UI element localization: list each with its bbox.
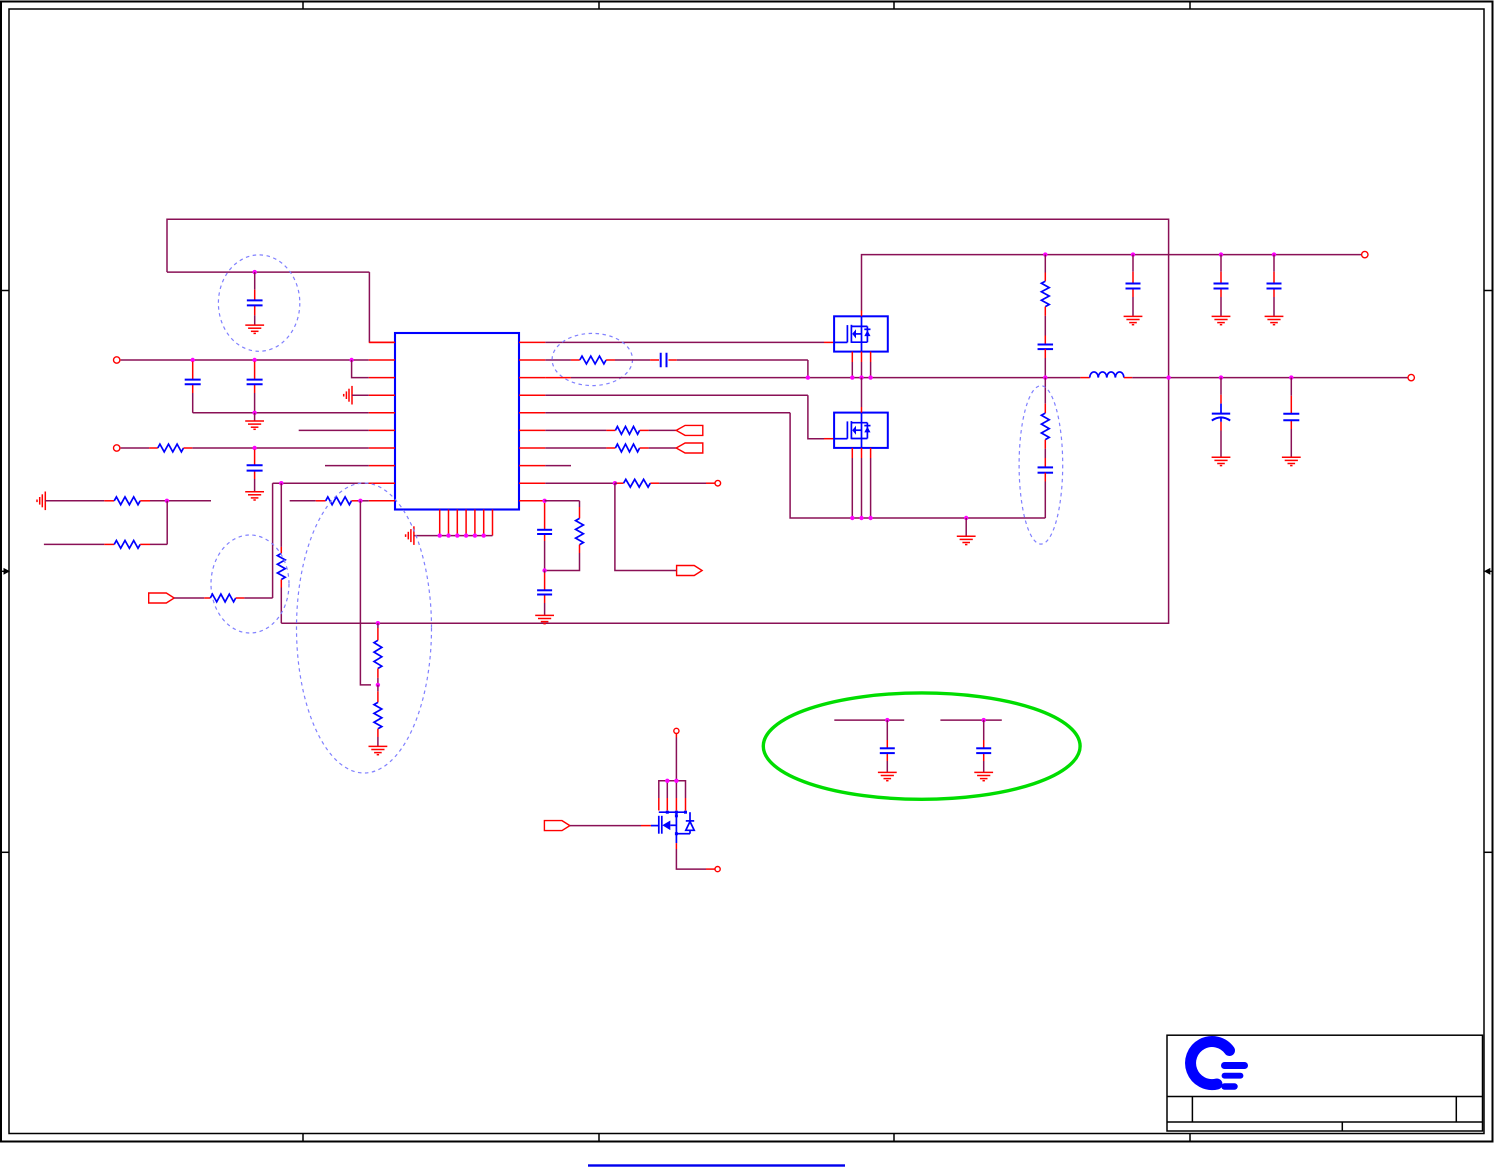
wire C4 to SW rail drop <box>668 360 808 378</box>
capacitor C8 <box>1214 284 1229 289</box>
junction SW rail at snubber <box>1043 375 1047 379</box>
wire ground bus under U1 bottom pins <box>414 535 493 537</box>
terminal circle above Q3 <box>674 728 679 733</box>
capacitor C2 leads <box>192 362 194 413</box>
wire row 4 to Q2 gate <box>545 395 834 439</box>
chassis ground at U1 bottom pin bus <box>406 526 414 545</box>
capacitor C16 leads <box>254 450 256 492</box>
junction row 9 <box>613 481 617 485</box>
capacitor C7 <box>1126 284 1141 289</box>
flag connector comp row <box>677 566 703 576</box>
capacitor C9 leads <box>1273 255 1275 317</box>
wire Q3 gate <box>570 825 659 827</box>
flag connector at Q3 gate <box>544 821 570 831</box>
junction AGND row at C3 bottom <box>252 411 256 415</box>
title block frame <box>1167 1035 1483 1131</box>
resistor R14 vertical <box>1041 281 1049 306</box>
resistor R9 <box>580 356 606 364</box>
junction VOUT rail at C12 <box>1219 375 1223 379</box>
wire R6 to corner up <box>236 597 273 599</box>
border zone tick marks top and bottom <box>303 2 1190 1143</box>
U1 bottom pins 21-27 <box>440 510 493 536</box>
junction VIN rail at R14 <box>1043 252 1047 256</box>
ground stub below AGND junction <box>254 413 256 421</box>
wire stub into U1 pin 8 <box>325 465 369 467</box>
capacitor C5 leads <box>544 503 546 571</box>
ground PGND below Q2 rail <box>957 536 976 544</box>
wire SW rail from U1 pin row 3 to inductor <box>545 377 1080 379</box>
wire VOUT loop left drop to U1 pin 1 <box>167 272 395 342</box>
highlight ellipse around R15 C11 snubber <box>1019 386 1063 544</box>
wire vertical joining R2 and R3 rows <box>166 501 168 545</box>
wire R4 to U1 pin 10 <box>352 500 369 502</box>
capacitor C10 <box>1038 345 1054 350</box>
junction divider mid node <box>376 683 380 687</box>
wire row 7 from terminal to R1 <box>121 447 158 449</box>
capacitor C7 leads <box>1132 255 1134 317</box>
wire L1 to VOUT rail <box>1124 377 1408 379</box>
capacitor C5 <box>537 530 552 534</box>
wire VIN top rail <box>862 255 1362 311</box>
resistor R13 vertical <box>576 518 584 544</box>
ground below C16 <box>245 492 264 500</box>
ground below R8 <box>369 746 388 754</box>
junctions on Q3 drain bracket <box>665 779 679 783</box>
wire vertical from pin 9 row down to FB flag row <box>272 483 274 598</box>
flag connector row 6 <box>676 425 703 435</box>
capacitor C15 leads <box>983 720 985 772</box>
capacitor C8 leads <box>1220 255 1222 317</box>
junction VIN rail at C2 <box>191 358 195 362</box>
wire Q1 drain pin <box>861 311 863 317</box>
capacitor C6 leads <box>544 571 546 616</box>
junctions SW rail at Q1 pins <box>850 375 873 379</box>
wire PGND stub <box>965 518 967 536</box>
resistor R10 <box>615 427 639 435</box>
wire VOUT sense loop (top horizontal, right vertical, bottom bus) <box>167 219 1169 623</box>
capacitor C9 <box>1267 284 1282 289</box>
wire stub into U1 pin 6 <box>299 429 369 431</box>
wire row 7 from R1 to U1 pin 7 <box>184 447 369 449</box>
ground below C14 <box>878 772 897 780</box>
resistor R8 upper lead <box>377 685 379 703</box>
wire SW rail to L1 <box>1080 377 1089 379</box>
wire R14 to C10 <box>1044 307 1046 345</box>
wire Q3 drain bracket <box>659 781 686 811</box>
junction at R2 right <box>165 499 169 503</box>
chassis ground left of R2 <box>37 492 45 511</box>
terminal VIN input circle <box>114 357 120 363</box>
capacitor C14 leads <box>886 720 888 772</box>
wire R5 lower lead to VOUT bus corner <box>280 580 282 624</box>
capacitor C4 series <box>661 353 667 368</box>
wire FB flag to R6 <box>174 597 210 599</box>
resistor R15 upper lead <box>1044 378 1046 414</box>
junctions on U1 bottom pin bus <box>438 533 486 537</box>
junction at R4 right / divider column <box>358 499 362 503</box>
resistor R13 lower lead <box>545 545 580 571</box>
resistor R7 lower lead <box>377 669 379 685</box>
capacitor C10 lower lead <box>1044 349 1046 378</box>
resistor R6 <box>210 594 235 602</box>
junction ground rail at PGND <box>964 516 968 520</box>
hyperlink underline at bottom <box>588 1164 845 1166</box>
transistor Q2 low-side MOSFET <box>834 413 888 448</box>
junction at C15 <box>982 718 986 722</box>
chassis ground at U1 pin 4 row <box>344 386 352 405</box>
wire U1 pin row 1 to Q1 gate <box>545 341 834 343</box>
junction VIN rail at C8 <box>1219 252 1223 256</box>
capacitor C1 <box>247 300 263 305</box>
wire row 2 to R9 <box>545 359 580 361</box>
junction pin 9 row at R5 column <box>279 481 283 485</box>
wire row 8 dead-end stub <box>545 465 571 467</box>
resistor R1 <box>158 444 184 452</box>
wire VIN rail drop to U1 pin 3 <box>352 360 369 378</box>
wire R15 to C11 <box>1044 440 1046 468</box>
wire R3 row left dead-end <box>44 543 114 545</box>
wire row 9 to junction <box>545 482 615 484</box>
capacitor C3 <box>247 380 263 385</box>
wire from terminal to Q3 drain bracket <box>675 734 677 781</box>
wire U1 pin 9 row <box>273 482 369 484</box>
wire from chassis ground to R2 <box>45 500 114 502</box>
wire U1 pin 4 row <box>352 394 369 396</box>
wire row 10 stub to R4 <box>290 500 326 502</box>
wire VIN rail <box>121 359 369 361</box>
resistor R8 lower lead <box>377 729 379 747</box>
wire R10 to flag <box>640 429 677 431</box>
ground below C6 <box>535 615 554 623</box>
resistor R3 <box>114 541 140 549</box>
capacitor C11 lower lead to ground rail <box>1044 473 1046 518</box>
wire stub at C15 <box>940 719 1001 721</box>
ground below C15 <box>974 772 993 780</box>
wire R9 to C4 <box>606 359 659 361</box>
transistor Q3 PMOS <box>659 811 694 836</box>
terminal VOUT circle <box>1408 374 1414 380</box>
wires Q2 source pins to ground rail <box>852 448 870 518</box>
junctions ground rail at Q2 pins <box>850 516 873 520</box>
junction VIN rail at corner to U1 pin 3 <box>349 358 353 362</box>
inductor L1 <box>1090 372 1124 378</box>
wire R2 to junction and dead-end stub <box>140 500 211 502</box>
capacitor C12 polarized <box>1212 414 1230 422</box>
border center arrow left <box>1 568 10 575</box>
highlight ellipse around R1 flag resistor <box>211 535 289 633</box>
wire row 5 to Q2 source rail <box>545 413 1045 518</box>
wire row 7 to R11 <box>545 447 615 449</box>
wire row 9 drop to flag row <box>615 483 677 570</box>
ground below C9 <box>1265 316 1284 324</box>
capacitor C14 <box>880 748 895 753</box>
wire row 10 to R13 column <box>545 500 580 502</box>
highlight ellipse around divider R7 R8 <box>297 483 432 773</box>
terminal VIN rail right circle <box>1362 251 1368 257</box>
capacitor C6 <box>537 590 552 594</box>
resistor R8 vertical <box>374 702 382 728</box>
capacitor C11 <box>1038 467 1054 472</box>
resistor R7 vertical <box>374 640 382 668</box>
resistor R4 <box>326 497 352 505</box>
junction at C14 <box>885 718 889 722</box>
capacitor C3 leads <box>254 362 256 413</box>
highlight ellipse around C1 <box>218 255 299 351</box>
wires Q1 source pins to SW rail <box>852 352 870 378</box>
border zone tick marks left and right <box>1 291 1492 853</box>
wire stub at C14 <box>834 719 904 721</box>
wire vertical R5 upper lead <box>280 483 282 553</box>
junction comp node <box>542 568 546 572</box>
resistor R11 <box>615 444 639 452</box>
wire row 6 to R10 <box>545 429 615 431</box>
junction on VOUT loop at C1 <box>253 270 257 274</box>
resistor R14 upper lead <box>1044 255 1046 282</box>
IC U1 controller body <box>395 333 519 510</box>
ground below C1 <box>245 325 264 333</box>
junction VIN rail at C3 <box>252 358 256 362</box>
junction VOUT rail at loop vertical <box>1166 375 1170 379</box>
wire Q2 drain pin from SW rail <box>861 378 863 413</box>
ground below C13 <box>1282 457 1301 465</box>
wire R3 to corner <box>140 543 167 545</box>
junction VIN rail at C7 <box>1131 252 1135 256</box>
ground below C2 C3 <box>245 421 264 429</box>
junction VOUT bus at divider R7 <box>376 621 380 625</box>
flag connector FB at left <box>149 593 175 603</box>
wire Q3 source to terminal <box>676 834 714 869</box>
junction row 7 at C16 <box>252 446 256 450</box>
border center arrow right <box>1484 568 1492 575</box>
capacitor C2 <box>185 380 201 385</box>
wire R12 to terminal <box>659 482 715 484</box>
flag connector row 7 <box>676 443 703 453</box>
capacitor C13 <box>1283 414 1299 421</box>
resistor R2 <box>114 497 140 505</box>
terminal circle row 7 <box>114 445 120 451</box>
wire AGND row from C2 bottom to U1 pin 5 <box>193 412 369 414</box>
ground below C12 <box>1212 457 1231 465</box>
ground below C8 <box>1212 316 1231 324</box>
capacitor C16 <box>247 465 263 470</box>
resistor R15 vertical <box>1041 413 1049 440</box>
junction VOUT rail at C13 <box>1289 375 1293 379</box>
ground below C7 <box>1124 316 1143 324</box>
U1 left pins 1-10 <box>369 342 395 500</box>
capacitor C1 leads <box>254 272 256 325</box>
junction VIN rail at C9 <box>1272 252 1276 256</box>
resistor R13 upper lead <box>579 501 581 519</box>
capacitor C13 leads <box>1290 378 1292 458</box>
terminal circle below Q3 <box>715 867 720 872</box>
U1 right pins 11-20 <box>519 342 545 500</box>
green highlight ellipse around C14 C15 <box>763 693 1080 799</box>
terminal circle row 9 <box>715 480 721 486</box>
junction SW rail at row2 drop <box>806 375 810 379</box>
junction U1 pin row 10 right <box>542 499 546 503</box>
transistor Q1 high-side MOSFET <box>834 316 888 351</box>
wire vertical from R4 junction down to divider mid node <box>360 501 371 685</box>
resistor R7 upper lead <box>377 623 379 640</box>
wire R11 to flag <box>640 447 677 449</box>
capacitor C12 lower lead <box>1220 422 1222 458</box>
resistor R12 leads <box>615 482 659 484</box>
capacitor C15 <box>976 748 991 753</box>
highlight ellipse around R9 <box>552 333 632 385</box>
company logo <box>1191 1042 1245 1087</box>
resistor R12 <box>624 479 651 487</box>
resistor R5 vertical <box>277 553 285 579</box>
capacitor C12 upper lead <box>1220 378 1222 414</box>
